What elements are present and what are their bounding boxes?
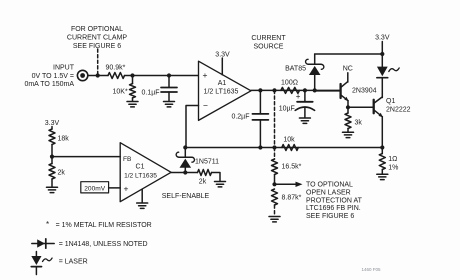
dashed wire current clamp tap vertical xyxy=(274,90,276,147)
schottky diode 1N5711 xyxy=(176,148,219,173)
node dashed crossing feedback xyxy=(272,145,276,149)
svg-text:LTC1696 FB PIN.: LTC1696 FB PIN. xyxy=(306,205,361,212)
svg-text:+: + xyxy=(124,183,129,193)
svg-text:2k: 2k xyxy=(58,170,66,177)
resistor 18k xyxy=(49,129,69,157)
svg-text:TO OPTIONAL: TO OPTIONAL xyxy=(306,182,353,189)
wire divider to FB input xyxy=(52,156,120,158)
svg-text:NC: NC xyxy=(343,65,353,72)
wire BAT85 cathode to 3.3V rail xyxy=(315,53,383,55)
svg-text:100Ω: 100Ω xyxy=(281,80,298,87)
svg-text:= 1N4148, UNLESS NOTED: = 1N4148, UNLESS NOTED xyxy=(59,241,148,248)
svg-text:1Ω: 1Ω xyxy=(388,156,397,163)
svg-text:18k: 18k xyxy=(58,136,70,143)
node optional FB tap xyxy=(272,182,276,186)
node Q1 emitter junction xyxy=(380,145,384,149)
svg-text:C1: C1 xyxy=(136,164,145,171)
3.3V supply A1 xyxy=(215,52,230,75)
capacitor 10uF polarized xyxy=(279,90,315,117)
resistor 3k xyxy=(345,107,362,131)
note: optional open laser protection xyxy=(306,182,363,220)
3.3V supply laser xyxy=(375,35,390,55)
svg-text:= LASER: = LASER xyxy=(59,259,88,266)
ground at 2k divider xyxy=(47,187,58,192)
svg-text:CURRENT: CURRENT xyxy=(251,35,286,42)
svg-text:0mA TO 150mA: 0mA TO 150mA xyxy=(24,81,74,88)
svg-text:1/2 LT1635: 1/2 LT1635 xyxy=(204,89,239,96)
transistor Q1 2N2222 xyxy=(374,94,411,148)
node dashed tap on output xyxy=(272,88,276,92)
svg-text:0V TO 1.5V =: 0V TO 1.5V = xyxy=(32,73,74,80)
transistor 2N3904 xyxy=(316,65,377,107)
legend diode 1N4148 symbol xyxy=(32,239,148,248)
wire A1 output xyxy=(251,89,341,91)
ground at 3k xyxy=(343,132,354,137)
node BAT85 anode junction xyxy=(313,88,317,92)
note: optional current clamp xyxy=(67,26,127,50)
resistor 8.87k xyxy=(272,189,302,205)
svg-text:−: − xyxy=(203,100,208,110)
dashed wire 8.87k to ground xyxy=(274,205,276,216)
svg-text:INPUT: INPUT xyxy=(53,65,75,72)
svg-text:Q1: Q1 xyxy=(386,98,395,105)
node divider junction xyxy=(50,155,54,159)
input label xyxy=(24,65,74,89)
resistor 1ohm 1% xyxy=(379,148,398,174)
node 0.2uF bottom junction xyxy=(258,145,262,149)
svg-text:10K*: 10K* xyxy=(113,89,128,96)
ground at 10K xyxy=(127,102,138,107)
laser diode xyxy=(377,54,399,94)
ground at 1ohm xyxy=(377,174,388,179)
wire A1 inverting input feedback xyxy=(186,106,199,148)
dashed wire 16.5k tap xyxy=(274,148,276,160)
svg-text:PROTECTION AT: PROTECTION AT xyxy=(306,197,363,204)
arrow to optional protection xyxy=(275,182,303,187)
figure number xyxy=(361,267,381,272)
node A1 output to 0.2uF xyxy=(258,88,262,92)
svg-text:SEE FIGURE 6: SEE FIGURE 6 xyxy=(306,213,354,220)
svg-text:16.5k*: 16.5k* xyxy=(282,164,302,171)
svg-text:SOURCE: SOURCE xyxy=(254,44,284,51)
svg-text:10k: 10k xyxy=(283,137,295,144)
svg-text:FOR OPTIONAL: FOR OPTIONAL xyxy=(71,26,123,33)
node input RC junction xyxy=(130,73,134,77)
svg-text:2N2222: 2N2222 xyxy=(386,107,411,114)
ground at 10uF xyxy=(299,118,310,123)
op-amp A1 1/2 LT1635 xyxy=(199,61,252,120)
svg-text:0.1µF: 0.1µF xyxy=(142,90,160,97)
3.3V supply divider xyxy=(45,120,60,129)
svg-text:200mV: 200mV xyxy=(84,185,105,192)
ground at C1 xyxy=(137,189,148,208)
svg-text:OPEN LASER: OPEN LASER xyxy=(306,190,351,197)
input connector xyxy=(77,70,87,80)
svg-text:A1: A1 xyxy=(218,80,227,87)
svg-text:1/2 LT1635: 1/2 LT1635 xyxy=(124,172,157,179)
legend laser symbol xyxy=(31,252,87,275)
svg-text:1460 F05: 1460 F05 xyxy=(361,267,381,272)
node 2N3904 emitter junction xyxy=(346,105,350,109)
wire C1 output xyxy=(171,172,197,174)
svg-text:3k: 3k xyxy=(355,120,363,127)
node junction dashed clamp tap xyxy=(96,73,100,77)
node 1N5711 anode junction xyxy=(183,170,187,174)
svg-text:90.9k*: 90.9k* xyxy=(106,65,126,72)
note: current source xyxy=(251,35,286,51)
svg-text:FB: FB xyxy=(123,156,132,163)
resistor 16.5k xyxy=(272,159,302,184)
svg-text:1N5711: 1N5711 xyxy=(195,159,219,166)
svg-text:2N3904: 2N3904 xyxy=(352,87,377,94)
svg-text:CURRENT CLAMP: CURRENT CLAMP xyxy=(67,34,127,41)
voltage source 200mV xyxy=(81,182,120,193)
svg-text:SELF-ENABLE: SELF-ENABLE xyxy=(162,193,210,200)
wire 2N3904 emitter to Q1 base xyxy=(348,106,373,108)
resistor 10K xyxy=(113,76,136,101)
node feedback left junction xyxy=(183,145,187,149)
ground at 2k self-enable xyxy=(215,182,226,187)
op-amp C1 1/2 LT1635 xyxy=(120,143,171,202)
ground at 0.1uF xyxy=(164,102,175,107)
ground at 8.87k xyxy=(269,217,280,222)
node cap junction xyxy=(167,73,171,77)
dashed wire to optional current clamp xyxy=(97,49,99,76)
resistor 2k self-enable xyxy=(198,170,221,186)
svg-text:*: * xyxy=(46,220,49,229)
svg-text:3.3V: 3.3V xyxy=(375,35,390,42)
node 3.3V rail laser xyxy=(380,52,384,56)
wire feedback node xyxy=(186,147,382,149)
wire input to 90.9k xyxy=(88,75,108,77)
svg-text:0.2µF: 0.2µF xyxy=(231,114,249,121)
svg-text:= 1% METAL FILM RESISTOR: = 1% METAL FILM RESISTOR xyxy=(56,222,152,229)
note: self-enable xyxy=(162,193,210,200)
svg-text:8.87k*: 8.87k* xyxy=(282,195,302,202)
capacitor 0.2uF xyxy=(231,90,268,147)
svg-text:+: + xyxy=(296,92,301,101)
schottky diode BAT85 xyxy=(285,54,324,90)
legend: 1% metal film resistor xyxy=(46,220,152,229)
svg-text:10µF: 10µF xyxy=(279,105,295,112)
svg-text:+: + xyxy=(203,70,208,80)
svg-text:BAT85: BAT85 xyxy=(285,66,306,73)
wire 90.9k to A1 +input xyxy=(125,75,199,77)
svg-text:2k: 2k xyxy=(199,179,207,186)
capacitor 0.1uF xyxy=(142,76,178,101)
svg-text:1%: 1% xyxy=(388,165,398,172)
resistor 10k xyxy=(282,137,299,151)
resistor 2k divider xyxy=(49,157,65,187)
resistor 90.9k xyxy=(106,65,126,79)
node 100ohm to 10uF xyxy=(303,88,307,92)
resistor 100ohm xyxy=(281,80,300,94)
